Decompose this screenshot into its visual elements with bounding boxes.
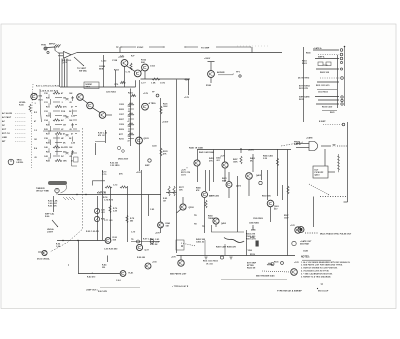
svg-text:R-92 C-92 470: R-92 C-92 470 (86, 230, 99, 233)
svg-text:Q463: Q463 (256, 174, 261, 177)
wire diag arrow (52, 220, 58, 227)
wire crow R209 (128, 128, 134, 130)
wire colv2 3 (72, 137, 74, 142)
transistor Q-33 (77, 94, 84, 101)
svg-text:R221100K: R221100K (163, 104, 168, 108)
resistor R crow0 (128, 103, 134, 105)
terminal TP513 (292, 241, 296, 245)
svg-text:+12V: +12V (220, 156, 225, 158)
transistor Q643 fill (300, 228, 303, 231)
wire to Q93 (38, 251, 42, 253)
resistor R-78 (126, 215, 128, 223)
svg-text:47: 47 (34, 120, 36, 123)
wire Q593 collector (182, 197, 184, 204)
switch gang dotted line (31, 84, 33, 168)
svg-text:47K: 47K (63, 105, 67, 108)
wire h240 (57, 240, 105, 242)
svg-text:C-14 R-15 .001 R-16: C-14 R-15 .001 R-16 (40, 90, 58, 93)
wire row2 (53, 101, 60, 103)
svg-text:C-91.001: C-91.001 (101, 210, 105, 214)
wire drop x225b (224, 244, 226, 256)
svg-text:AC: AC (2, 120, 6, 123)
arrow sync2 right (250, 46, 251, 49)
wire dashed to label (305, 232, 318, 234)
svg-text:SLOPE: SLOPE (61, 147, 68, 149)
transistor Q-A1 (120, 271, 126, 277)
wire crow R211 (128, 138, 134, 140)
terminal P1-5 (341, 96, 343, 98)
wire sync2 drop (251, 47, 253, 53)
connector hatch (54, 45, 61, 48)
wire Q493 emitter (215, 224, 217, 227)
transistor Q453 (222, 162, 228, 168)
svg-text:5. * SEE CALIBRATION SECTION.: 5. * SEE CALIBRATION SECTION. (301, 272, 333, 275)
svg-text:R-A7 47K: R-A7 47K (98, 290, 108, 293)
svg-text:R519: R519 (250, 254, 255, 256)
diode D-98 (137, 240, 140, 243)
svg-text:C-A1: C-A1 (116, 279, 121, 282)
wire row y241 (131, 241, 160, 243)
svg-text:C495 R495: C495 R495 (249, 222, 259, 225)
arrow to vert switch (83, 65, 84, 66)
wire row10 (53, 137, 60, 139)
sync arrow line 2 (184, 46, 251, 48)
stray dot (68, 265, 69, 266)
ground g2 (229, 257, 232, 259)
terminal P1-3 (340, 57, 343, 60)
svg-text:.05: .05 (34, 157, 37, 159)
wire vertical x247 (246, 230, 248, 256)
svg-text:C601: C601 (323, 65, 328, 67)
wire colv 0 (50, 99, 52, 105)
wire rowext5 (75, 115, 77, 117)
svg-text:ADDER: ADDER (217, 71, 225, 74)
wire r96 (315, 96, 339, 98)
arrow sync right (163, 46, 164, 49)
wire dashed h196 (320, 196, 348, 198)
wire colv 3 (50, 140, 52, 146)
wire h192 (166, 192, 177, 194)
transistor Q463 (246, 173, 253, 180)
svg-text:47: 47 (71, 105, 73, 108)
transistor Q593 (180, 204, 186, 210)
wire bundle 4 (66, 59, 68, 88)
wire x268 (267, 170, 269, 200)
wire gate to box (324, 149, 326, 166)
svg-text:R605 10K: R605 10K (320, 72, 330, 74)
svg-text:Q-97: Q-97 (145, 250, 149, 252)
wire Q183 emitter (210, 77, 212, 83)
svg-text:R503 27KC505 .001R507 4.7K: R503 27KC505 .001R507 4.7K (246, 234, 256, 241)
svg-text:R31: R31 (46, 106, 50, 108)
transistor Q-A3 (178, 260, 184, 266)
resistor R row3 (55, 105, 62, 107)
svg-text:R153: R153 (114, 70, 119, 72)
transformer T490 core (256, 241, 259, 247)
svg-text:+225V: +225V (248, 150, 255, 152)
svg-text:LINE: LINE (2, 137, 7, 139)
resistor R467 (276, 158, 278, 166)
svg-text:T490: T490 (248, 249, 252, 252)
power rail +300V (208, 61, 215, 63)
wire x197 upper (197, 149, 199, 160)
svg-text:1K .001: 1K .001 (206, 264, 213, 266)
svg-text:R-4: R-4 (34, 147, 37, 150)
svg-text:SEE TRIGGER DIAG: SEE TRIGGER DIAG (256, 275, 275, 278)
svg-text:SW DIA: SW DIA (79, 69, 87, 72)
wire adder (218, 74, 233, 76)
terminal G2 (220, 256, 223, 259)
svg-text:A TRIG: A TRIG (149, 102, 157, 105)
pill TIME/DIV (48, 181, 67, 185)
junction (76, 194, 77, 195)
svg-text:1M: 1M (128, 136, 131, 138)
transistor Q213 (142, 103, 149, 110)
wire x253 (252, 154, 254, 172)
svg-text:C-73: C-73 (126, 72, 131, 74)
transistor Q473 (226, 182, 232, 188)
svg-text:47K: 47K (119, 173, 123, 176)
wire colv2 0 (72, 96, 74, 101)
wire x78 drop (78, 241, 80, 274)
wire diagonal to vert switch (74, 57, 84, 66)
wire row5 (55, 115, 62, 117)
transistor Q-53 (99, 112, 106, 119)
svg-text:R441 C441 R445: R441 C441 R445 (199, 151, 214, 154)
wire Q163 emitter (144, 71, 146, 79)
svg-text:AC SLOW: AC SLOW (2, 112, 12, 115)
wire row1 (55, 97, 62, 99)
svg-text:.1: .1 (61, 102, 63, 104)
svg-text:50Ω: 50Ω (39, 96, 43, 98)
wire x53 drop (53, 196, 55, 212)
wire Q43-Q53 (92, 108, 100, 113)
terminal P1-3b (340, 68, 342, 70)
diode D-91 (94, 208, 99, 213)
svg-text:2R50 250V: 2R50 250V (118, 159, 129, 161)
wire r100 (318, 99, 339, 101)
svg-text:C-72 .02: C-72 .02 (98, 192, 106, 194)
wire x313 drop (313, 197, 315, 228)
resistor R577 (173, 186, 175, 196)
wire light h279 (221, 279, 287, 281)
transistor Q483 (202, 192, 208, 198)
terminal TP463 (259, 181, 262, 184)
wire h149 (198, 149, 292, 151)
wire x225 lower (224, 168, 226, 182)
wire x283 (282, 185, 284, 200)
svg-text:C38: C38 (44, 138, 48, 140)
svg-text:10K: 10K (128, 126, 132, 128)
svg-text:R457100K: R457100K (233, 158, 238, 163)
svg-text:TD: TD (194, 215, 197, 217)
wire row13 (55, 151, 62, 153)
svg-text:2.2K: 2.2K (71, 115, 76, 117)
wire connector spine (344, 47, 346, 106)
svg-text:C207: C207 (119, 114, 124, 116)
wire vertical x130 (130, 89, 132, 147)
wire vertical x102 (102, 170, 104, 240)
transistor Q223 (136, 137, 143, 144)
transistor Q153 (121, 60, 128, 67)
wire sync drop (119, 47, 121, 53)
svg-text:SN 101-UP: SN 101-UP (318, 291, 329, 293)
wire x105 stub (105, 130, 107, 143)
transistor Q243 (158, 222, 164, 228)
pill hook (61, 185, 67, 193)
arrow diag r (328, 194, 329, 195)
svg-text:TD: TD (194, 224, 197, 226)
wire vertical x206 (205, 170, 207, 191)
resistor R201 (131, 94, 136, 96)
svg-text:C42: C42 (44, 155, 48, 158)
delay line hatch (337, 154, 340, 171)
svg-text:R-60 2-5KC-60 .001R-61 10K: R-60 2-5KC-60 .001R-61 10K (48, 201, 58, 208)
svg-text:R503 18K: R503 18K (262, 196, 271, 198)
arrow down (186, 167, 189, 168)
wire vertical x161 (160, 98, 162, 222)
svg-text:TO SWP: TO SWP (201, 47, 210, 49)
svg-text:C-74 R-75: C-74 R-75 (104, 199, 113, 202)
svg-text:NOTES:: NOTES: (301, 257, 310, 259)
arrow diag (57, 226, 58, 227)
terminal TP1 (239, 75, 241, 77)
wire x107 stub (107, 256, 109, 263)
svg-text:.1: .1 (34, 103, 36, 105)
wire gate input b (58, 55, 63, 57)
svg-text:R493 18KC493 .02: R493 18KC493 .02 (196, 238, 206, 244)
svg-text:+ TYPE A-12-47 R: + TYPE A-12-47 R (172, 285, 189, 288)
resistor R223 (160, 148, 162, 156)
svg-text:R-99 680: R-99 680 (137, 257, 145, 259)
wire leader 7 (15, 140, 26, 142)
svg-text:R35: R35 (46, 124, 50, 126)
svg-text:+GATE: +GATE (306, 137, 313, 140)
wire tick 10 (48, 139, 50, 142)
wire Q163 to Q173 (141, 70, 143, 72)
wire vertical x348 (347, 122, 349, 202)
svg-text:+150: +150 (152, 262, 157, 264)
wire colv2 1 (72, 110, 74, 115)
transistor Q493 (213, 218, 219, 224)
wire colv2 2 (72, 123, 74, 128)
terminal TP201 (156, 94, 159, 97)
transistor Q503 (267, 200, 274, 207)
junction (240, 148, 241, 149)
wire vertical x238 (237, 176, 239, 232)
svg-text:+GATE A: +GATE A (313, 47, 322, 50)
terminal TP223 (148, 159, 151, 162)
svg-text:10K: 10K (69, 147, 73, 149)
mechanical linkage dashed (50, 128, 83, 252)
wire vertical x110 (110, 187, 112, 241)
svg-text:C176: C176 (160, 83, 165, 85)
svg-text:R507C507: R507C507 (284, 215, 289, 219)
svg-text:10K: 10K (69, 93, 73, 95)
wire elbow x92 (93, 181, 106, 186)
svg-text:47: 47 (61, 92, 63, 95)
wire r50 (313, 49, 339, 51)
wire vertical x127 (127, 186, 129, 242)
svg-text:C209: C209 (119, 124, 124, 126)
svg-text:R601R603: R601R603 (302, 61, 307, 65)
wire tick 0 (48, 94, 50, 97)
svg-text:3. SWITCH SHOWN IN CCW POSITIO: 3. SWITCH SHOWN IN CCW POSITION. (301, 268, 338, 270)
wire diag dashed (181, 243, 196, 246)
svg-text:.05: .05 (69, 129, 72, 131)
svg-text:R43: R43 (46, 159, 50, 162)
wire Q483 emitter (204, 198, 206, 233)
wire divider y131 (43, 130, 80, 132)
svg-text:+30V: +30V (171, 257, 176, 259)
arrow squiggle (243, 240, 244, 243)
wire vertical x337 (337, 55, 339, 108)
svg-text:C40: C40 (44, 146, 48, 149)
capacitor C row13 (66, 153, 69, 155)
junction (77, 240, 78, 241)
wire to x348 dashed (337, 145, 348, 147)
terminal TPb (281, 262, 284, 265)
trim caps (117, 146, 124, 152)
junction (62, 240, 63, 241)
svg-text:C158: C158 (112, 60, 118, 62)
wire rowext4 (73, 110, 77, 112)
wire r104 (316, 103, 339, 105)
svg-text:R33: R33 (46, 115, 50, 117)
wire main top bus (77, 52, 282, 54)
svg-text:R600: R600 (306, 53, 311, 55)
wire dashes up-right (281, 142, 303, 146)
wire row8 (53, 128, 60, 130)
resistor R-76b (120, 81, 126, 83)
svg-text:+12V: +12V (294, 262, 299, 264)
svg-text:R473SWP: R473SWP (222, 177, 227, 182)
front panel knob (8, 159, 14, 165)
resistor R222 (160, 106, 162, 114)
wire x181 stub (180, 256, 182, 260)
svg-text:R-11 C-11 R-12 C-12 R-13: R-11 C-11 R-12 C-12 R-13 (36, 86, 59, 88)
svg-text:R207: R207 (119, 119, 124, 121)
wire gate input a (58, 52, 63, 54)
svg-text:C32: C32 (44, 111, 48, 113)
wire squiggle to B sweep (224, 238, 244, 243)
terminal P1-4 (341, 77, 344, 80)
wire leader 5 (15, 132, 26, 134)
wire bus y194 (58, 194, 161, 196)
svg-text:2. SEE PARTS LIST FOR SEMICOND: 2. SEE PARTS LIST FOR SEMICOND TYPES. (301, 264, 343, 267)
wire vertical x303 (303, 47, 305, 122)
wire x97 drop (97, 196, 99, 241)
capacitor C row1 (66, 99, 69, 101)
svg-text:C205: C205 (119, 104, 124, 106)
svg-text:Q483 C483: Q483 C483 (209, 195, 219, 198)
wire drop x188 (188, 79, 190, 95)
wire vertical x214 (213, 150, 215, 183)
wire h273 (78, 273, 120, 275)
svg-text:R183: R183 (206, 85, 212, 87)
wire tick 141 (95, 141, 105, 143)
svg-text:C-79: C-79 (131, 232, 135, 234)
arrow sync2 left (185, 46, 186, 49)
wire h255 bus (177, 255, 296, 257)
svg-text:R497 C497 R499 47K: R497 C497 R499 47K (216, 246, 237, 249)
wire tick 4 (48, 112, 50, 115)
wire curved left (40, 89, 42, 122)
wire tick 8 (48, 130, 50, 133)
wire tick 2 (48, 103, 50, 106)
capacitor C row9 (66, 135, 69, 137)
svg-text:SEE PARTS LIST: SEE PARTS LIST (170, 273, 187, 276)
svg-text:EXT: EXT (2, 129, 7, 131)
svg-text:SWP A: SWP A (318, 56, 325, 59)
wire Q243 emitter (160, 228, 162, 233)
wire stub x241 (240, 149, 242, 153)
wire rowext6 (73, 119, 77, 121)
wire row14 (53, 155, 60, 157)
svg-text:DC: DC (2, 125, 6, 127)
arrow adder (233, 73, 234, 76)
wire bundle 2 (61, 59, 63, 88)
wire r58 (315, 58, 339, 60)
wire x57 mid (56, 135, 58, 155)
connector J1 (44, 47, 49, 54)
svg-text:R621: R621 (330, 112, 335, 114)
diode D-99 (150, 240, 154, 244)
wire leader 6 (15, 136, 26, 138)
transistor Q-95 (105, 238, 111, 244)
svg-text:B SWP: B SWP (319, 121, 326, 123)
svg-text:C509 R509: C509 R509 (253, 218, 263, 220)
svg-text:1M: 1M (128, 116, 131, 118)
resistor R601 block (318, 62, 323, 66)
wire Q503 emitter (270, 207, 272, 222)
svg-text:R-A0 470: R-A0 470 (87, 276, 95, 279)
wire gate out (321, 145, 331, 147)
wire x210 (209, 170, 211, 191)
resistor R crow4 (128, 123, 134, 125)
svg-text:D35: D35 (44, 129, 48, 131)
wire long vertical x176 (176, 80, 178, 254)
capacitor C401 (333, 145, 336, 147)
junction (85, 194, 86, 195)
wire colv 2 (50, 126, 52, 132)
wire bundle feed 1 (55, 51, 60, 59)
svg-text:C201 R202: C201 R202 (106, 92, 116, 94)
switch S601 (55, 188, 59, 192)
svg-text:Q593: Q593 (189, 207, 195, 209)
resistor R158 (130, 63, 132, 70)
svg-text:+300V: +300V (204, 58, 211, 60)
wire colv 1 (50, 113, 52, 119)
svg-text:R76: R76 (115, 84, 119, 86)
wire box out (328, 171, 335, 173)
resistor R44 (29, 104, 31, 112)
terminal P1-2b (340, 61, 342, 63)
box small (176, 240, 184, 250)
svg-text:+30V: +30V (155, 233, 160, 235)
transistor Q-A2 (145, 263, 151, 269)
ground g1 (204, 257, 207, 259)
svg-text:10K: 10K (69, 120, 73, 122)
wire light h287 (100, 287, 140, 289)
terminal TP527 (271, 263, 274, 266)
junction (181, 245, 183, 247)
svg-text:R41: R41 (46, 150, 50, 153)
svg-text:R-70C-70: R-70C-70 (102, 172, 106, 176)
mark (317, 288, 318, 289)
svg-text:.05: .05 (69, 102, 72, 104)
wire section boundary step (212, 225, 245, 232)
